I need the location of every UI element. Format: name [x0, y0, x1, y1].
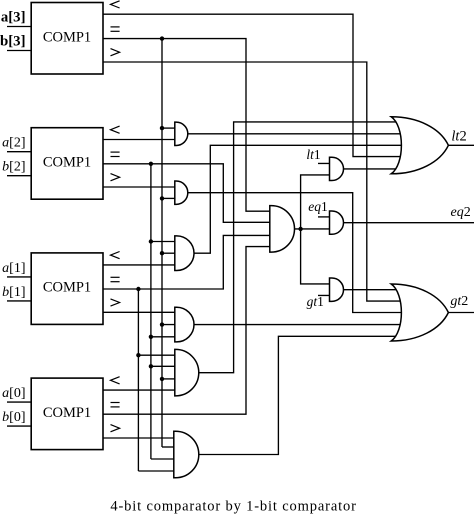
wire eqall: U8 output to AND A6 input 2: [295, 228, 331, 230]
wire eq2 bus into AND U7 input 3: [151, 458, 176, 460]
svg-text:eq2: eq2: [451, 205, 471, 220]
wire stub eq2 to A3 input 1: [151, 241, 176, 243]
wire input a[3]: [7, 26, 31, 28]
node eq2/A4 junction: [149, 335, 153, 339]
svg-text:COMP1: COMP1: [43, 405, 91, 421]
pin label &lt; of U4: [111, 377, 120, 384]
wire eq1 cascade input stub to A6 input 1: [318, 216, 331, 218]
1-bit comparator U1 (COMP1): [31, 3, 103, 75]
wire U7 output to OR U10 input 5: [199, 336, 402, 454]
node eq3/A4 junction: [160, 322, 164, 326]
wire input a[0]: [7, 401, 31, 403]
node eq3/A5 junction: [160, 377, 164, 381]
node eq2/A5 junction: [149, 364, 153, 368]
wire eqall branch up to AND A7 input 2: [301, 175, 331, 229]
wire A1 output to OR U9 input 2: [188, 133, 402, 135]
wire eq2i: U2 eq output to big AND U8 input 2: [103, 164, 271, 223]
wire input b[1]: [7, 300, 31, 302]
pin label = of U1: [111, 26, 120, 28]
wire stub eq3 to A1 input 1: [162, 127, 176, 129]
svg-text:a[3]: a[3]: [1, 10, 26, 26]
svg-text:4-bit comparator by 1-bit comp: 4-bit comparator by 1-bit comparator: [110, 499, 356, 515]
svg-text:lt2: lt2: [451, 129, 466, 145]
svg-text:COMP1: COMP1: [43, 29, 91, 45]
pin label &gt; of U2: [111, 174, 120, 181]
wire gt0: U4 gt output to AND U7 input 1: [103, 437, 176, 439]
pin label &lt; of U3: [111, 252, 120, 259]
wire stub eq3 to A2 input 2: [162, 197, 176, 199]
svg-text:eq1: eq1: [308, 199, 328, 214]
wire eq1 bus into AND U7 input 4: [138, 470, 175, 472]
wire eq1i: U3 eq output to big AND U8 input 3: [103, 235, 271, 289]
wire lt1i: U3 lt output to AND A3 input 3: [103, 264, 176, 266]
wire eq2 vertical bus (x=150.9): [150, 164, 152, 459]
and-gate A6 (eq1 &amp; eqall) output eq2: [330, 211, 344, 234]
node eqall junction at U8 output: [298, 227, 302, 231]
pin label = of U4: [111, 402, 120, 404]
node eq1/A5 junction: [136, 353, 140, 357]
wire A4 output to OR U10 input 4: [194, 324, 402, 326]
wire A8 output to OR U10 input 1: [344, 289, 403, 291]
pin label &gt; of U1: [111, 49, 120, 56]
wire input a[2]: [7, 151, 31, 153]
wire gt2 output net: [448, 312, 474, 314]
node eq2/A3 junction: [149, 239, 153, 243]
wire stub eq2 to A4 input 3: [151, 336, 176, 338]
wire gt1i: U3 gt output to AND A4 input 1: [103, 311, 176, 313]
wire A7 output to OR U9 input 5: [344, 168, 403, 170]
or-gate U10 (5-input) output gt2: [391, 284, 448, 341]
pin label &gt; of U3: [111, 299, 120, 306]
wire input b[3]: [7, 50, 31, 52]
wire A5 output to OR U9 input 1: [199, 122, 402, 373]
and-gate U8 (eq3 &amp; eq2 &amp; eq1 &amp; eq0): [270, 206, 295, 253]
wire A3 output to OR U9 input 3: [194, 145, 402, 253]
wire stub eq3 to A3 input 2: [162, 252, 176, 254]
and-gate A4 (gt1i &amp; eq3 &amp; eq2): [175, 307, 194, 342]
wire lt3: U1 lt output to OR gate U9 input 4: [103, 14, 402, 156]
svg-text:gt1: gt1: [307, 294, 324, 309]
wire input a[1]: [7, 276, 31, 278]
svg-text:gt2: gt2: [450, 294, 468, 309]
wire eqall branch down to AND A8 input 1: [301, 229, 331, 284]
svg-text:b[0]: b[0]: [2, 410, 25, 425]
svg-text:COMP1: COMP1: [43, 280, 91, 296]
wire lt1 cascade input stub to A7 input 1: [318, 162, 331, 164]
wire A2 output to OR U10 input 3: [188, 193, 402, 313]
node eq3/A2 junction: [160, 196, 164, 200]
wire gt3: U1 gt output to OR gate U10 input 2: [103, 62, 402, 301]
svg-text:COMP1: COMP1: [43, 155, 91, 171]
svg-text:lt1: lt1: [306, 147, 320, 162]
pin label &gt; of U4: [111, 425, 120, 432]
pin label = of U3: [111, 276, 120, 278]
1-bit comparator U4 (COMP1): [31, 378, 103, 450]
pin label &lt; of U1: [111, 1, 120, 8]
wire lt0: U4 lt output to AND A5 input 4: [103, 389, 176, 391]
wire gt2i: U2 gt output to AND A2 input 1: [103, 186, 176, 188]
or-gate U9 (5-input) output lt2: [391, 117, 448, 174]
pin label = of U2: [111, 151, 120, 153]
1-bit comparator U2 (COMP1): [31, 128, 103, 200]
wire eq3: U1 eq output to big AND U8 input 1: [103, 39, 271, 212]
wire gt1 cascade input stub to A8 input 2: [318, 294, 331, 296]
svg-text:b[3]: b[3]: [0, 34, 25, 50]
svg-text:a[0]: a[0]: [2, 386, 25, 401]
node eq3/A1 junction: [160, 126, 164, 130]
svg-text:b[1]: b[1]: [2, 285, 25, 300]
and-gate A8 (eqall &amp; gt1): [330, 278, 344, 301]
wire lt2 output net: [448, 144, 474, 146]
wire eq2 output net: [344, 222, 474, 224]
svg-text:b[2]: b[2]: [2, 160, 25, 175]
node eq3/A3 junction: [160, 251, 164, 255]
1-bit comparator U3 (COMP1): [31, 253, 103, 325]
wire stub eq3 to A5 input 3: [162, 378, 176, 380]
wire eq3 bus into AND U7 input 2: [162, 446, 176, 448]
svg-text:a[1]: a[1]: [2, 261, 25, 276]
wire lt2i: U2 lt output to AND A1 input 2: [103, 139, 176, 141]
wire eq0: U4 eq output to big AND U8 input 4: [103, 247, 271, 415]
and-gate A1 (eq3 &amp; lt2i): [175, 122, 188, 145]
svg-text:a[2]: a[2]: [2, 136, 25, 151]
and-gate A5 (eq1 &amp; eq2 &amp; eq3 &amp; lt0): [175, 349, 199, 396]
wire stub eq3 to A4 input 2: [162, 324, 176, 326]
wire input b[2]: [7, 175, 31, 177]
wire stub eq1 to A5 input 1: [138, 354, 175, 356]
wire input b[0]: [7, 425, 31, 427]
and-gate U7 (gt0 &amp; eq3 &amp; eq2 &amp; eq1): [174, 431, 199, 478]
node eq1 junction on U3 eq wire: [136, 287, 140, 291]
pin label &lt; of U2: [111, 126, 120, 133]
wire eq3 vertical bus (x=162): [161, 39, 163, 447]
node eq2 junction on U2 eq wire: [149, 162, 153, 166]
and-gate A3 (eq2 &amp; eq3 &amp; lt1i): [175, 236, 194, 271]
and-gate A7 (lt1 &amp; eqall): [330, 157, 344, 180]
wire eq1 vertical bus (x=138.4): [137, 289, 139, 471]
node eq3 junction on U1 eq wire: [160, 36, 164, 40]
and-gate A2 (gt2i &amp; eq3): [175, 181, 188, 204]
wire stub eq2 to A5 input 2: [151, 365, 176, 367]
